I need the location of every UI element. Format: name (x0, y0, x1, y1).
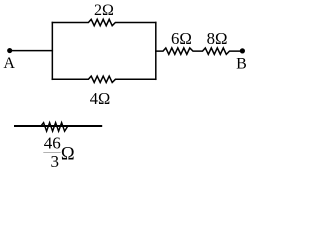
svg-text:8Ω: 8Ω (207, 29, 228, 48)
svg-text:A: A (3, 55, 15, 72)
svg-text:6Ω: 6Ω (171, 29, 192, 48)
svg-text:Ω: Ω (61, 145, 75, 165)
svg-text:3: 3 (50, 152, 59, 171)
svg-text:B: B (236, 55, 247, 72)
svg-text:4Ω: 4Ω (90, 89, 111, 108)
svg-text:2Ω: 2Ω (94, 2, 114, 19)
svg-text:46: 46 (44, 134, 61, 153)
